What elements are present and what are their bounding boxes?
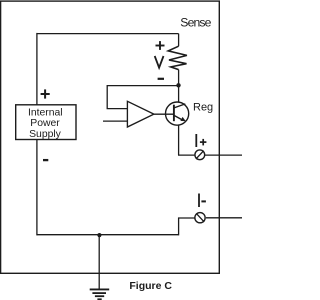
node junction dot (resistor/feedback) <box>176 83 180 87</box>
wire collector lead (dot to transistor) <box>178 86 180 102</box>
label + (resistor top polarity) <box>156 41 165 50</box>
wire I- out to edge <box>206 217 242 219</box>
label I+ <box>196 134 206 147</box>
internal power supply U2 box <box>16 105 76 140</box>
wire I- riser (bottom wire up to terminal) <box>179 218 195 235</box>
terminal I- (circle with slash) <box>195 213 205 223</box>
wire to I+ terminal <box>178 154 194 156</box>
wire ground drop <box>98 235 100 289</box>
label - (supply polarity) <box>43 159 48 161</box>
wire op-amp output to base <box>154 113 174 115</box>
svg-text:Supply: Supply <box>29 129 62 140</box>
svg-text:Reg: Reg <box>193 102 213 114</box>
label I- <box>199 194 206 208</box>
op-amp U1 <box>127 101 153 127</box>
label + (supply polarity) <box>41 89 50 98</box>
outer border frame <box>1 1 220 273</box>
wire emitter lead down <box>178 125 180 155</box>
svg-text:Figure C: Figure C <box>129 280 172 292</box>
svg-text:Sense: Sense <box>180 16 211 30</box>
resistor R sense (zigzag) <box>168 46 187 69</box>
svg-text:Power: Power <box>30 118 60 129</box>
resistor top lead <box>178 34 180 47</box>
label V (sense voltage) <box>155 56 164 68</box>
wire I+ out to edge <box>205 154 242 156</box>
wire bottom (inner loop) <box>37 234 179 236</box>
wire non-inverting input stub <box>103 120 127 122</box>
wire left lower (loop left, - side) <box>36 140 38 236</box>
wire feedback (dot to op-amp inverting input) <box>107 86 177 109</box>
resistor bottom lead <box>178 70 180 87</box>
terminal I+ (circle with slash) <box>195 150 205 160</box>
ground symbol <box>90 289 110 299</box>
wire left upper (loop left, + side) <box>36 33 38 105</box>
svg-text:Internal: Internal <box>28 107 63 118</box>
label - (resistor bottom polarity) <box>158 78 164 80</box>
node junction dot (ground tap) <box>97 233 101 237</box>
transistor Q1 Reg <box>166 102 189 125</box>
wire top (inner loop) <box>37 33 179 35</box>
